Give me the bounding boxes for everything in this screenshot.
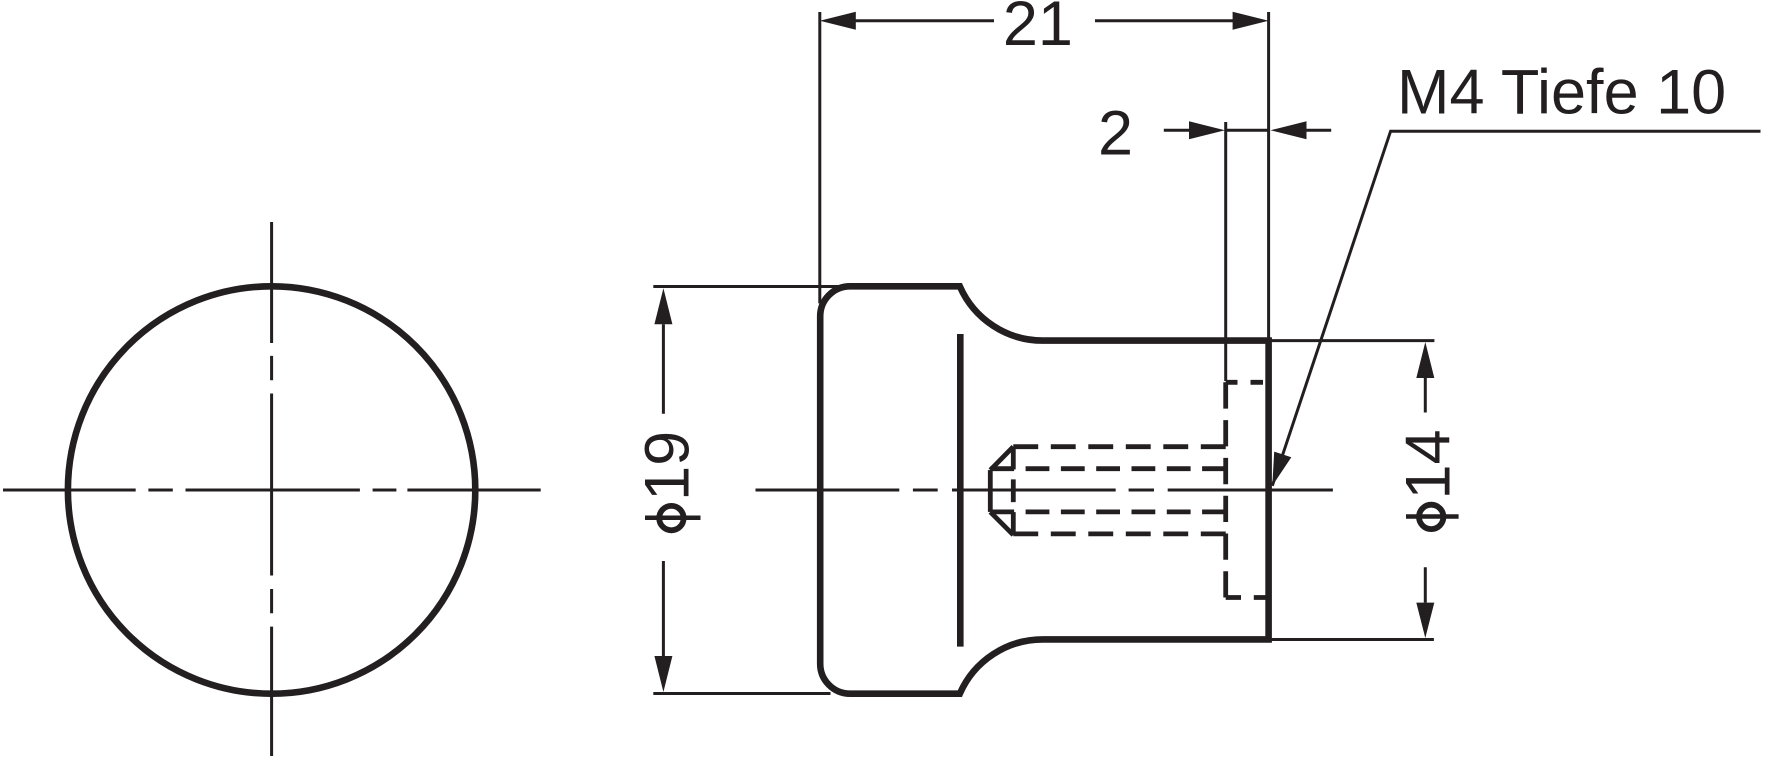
- hidden line: counterbore top edge: [1226, 380, 1263, 385]
- dimension φ19: arrowhead top: [654, 288, 672, 324]
- dimension φ14: value text (rotated): [1394, 429, 1464, 499]
- dimension φ14: diameter symbol: [1406, 505, 1459, 529]
- dimension 2: dimension line and tails: [1164, 129, 1331, 132]
- dimension 21: arrowhead left: [820, 12, 856, 30]
- dimension φ19: extension line top: [653, 285, 852, 288]
- svg-text:21: 21: [1003, 0, 1073, 59]
- dimension φ14: dimension line: [1424, 378, 1427, 603]
- dimension 21: arrowhead right: [1233, 12, 1269, 30]
- dimension φ14: arrowhead bottom: [1416, 603, 1434, 638]
- dimension φ19: value text (rotated): [633, 431, 703, 501]
- dimension 21: dimension line: [855, 19, 1233, 22]
- svg-text:M4 Tiefe 10: M4 Tiefe 10: [1397, 58, 1726, 128]
- hidden line: hole bottom apex vertical: [988, 470, 993, 512]
- side view body outline: [820, 286, 1268, 693]
- dimension φ14: extension line bottom: [1272, 638, 1434, 641]
- dimension 2: extension line left: [1224, 122, 1227, 381]
- svg-text:19: 19: [633, 431, 703, 501]
- dimension φ19: diameter symbol: [645, 506, 701, 530]
- leader M4 Tiefe 10: leader line: [1272, 131, 1760, 486]
- hidden line: counterbore bottom edge: [1226, 595, 1266, 600]
- svg-text:2: 2: [1098, 99, 1133, 169]
- hidden line: counterbore diameter vertical: [1223, 382, 1228, 597]
- hidden line: pilot hole top: [990, 466, 1225, 471]
- hidden line: thread major diameter bottom: [1013, 532, 1225, 537]
- hidden line: hole bottom chamfer lower: [990, 512, 1013, 535]
- dimension φ14: arrowhead top: [1416, 342, 1434, 378]
- dimension φ14: extension line top: [1272, 339, 1435, 342]
- side view front-face edge line: [957, 334, 964, 647]
- front view horizontal center line: [3, 489, 541, 492]
- side view horizontal center line: [756, 489, 1333, 492]
- svg-text:14: 14: [1394, 429, 1464, 499]
- dimension φ19: dimension line: [662, 324, 665, 656]
- dimension φ19: arrowhead bottom: [654, 656, 672, 692]
- dimension φ19: extension line bottom: [653, 692, 830, 695]
- dimension 2: arrowhead left (points right): [1189, 121, 1225, 139]
- dimension 2: arrowhead right (points left): [1271, 121, 1307, 139]
- hidden line: pilot hole bottom: [990, 509, 1225, 514]
- dimension 21: extension line right: [1267, 12, 1270, 341]
- hidden line: thread major diameter top: [1013, 444, 1225, 449]
- front view vertical center line: [270, 222, 273, 756]
- leader M4 Tiefe 10: arrowhead: [1272, 452, 1291, 486]
- hidden line: hole bottom chamfer upper: [990, 447, 1013, 470]
- dimension 21: extension line left: [818, 12, 821, 303]
- hidden line: thread end vertical: [1011, 447, 1016, 535]
- front view circle (knob face, φ19): [68, 286, 475, 693]
